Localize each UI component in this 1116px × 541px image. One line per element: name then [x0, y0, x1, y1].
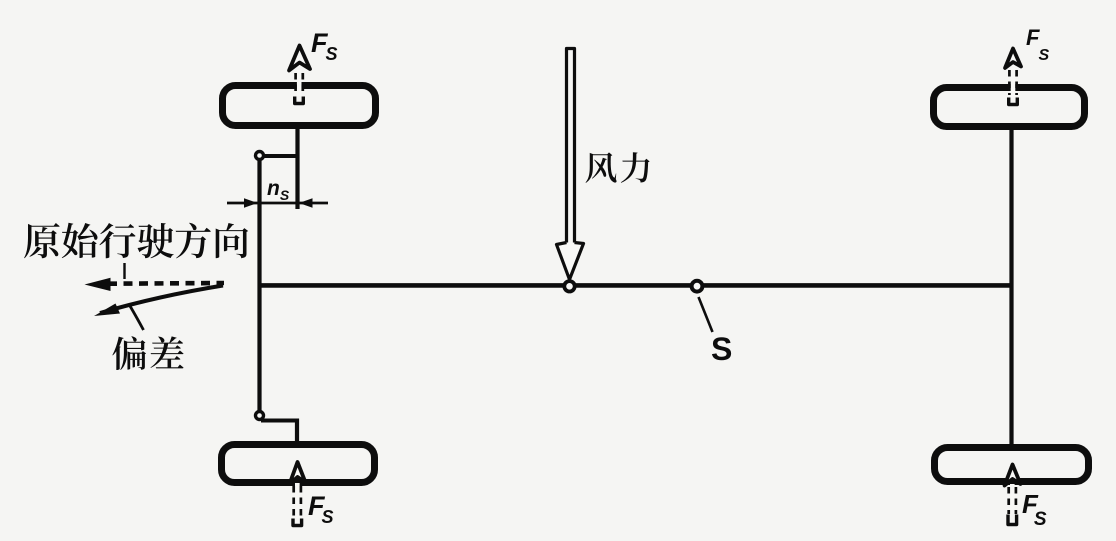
- node S center of gravity: [692, 281, 703, 292]
- wheel front-left tire: [223, 86, 376, 126]
- force arrow Fs rear-right shaft: [1009, 487, 1016, 514]
- wheel rear-left tire: [222, 445, 375, 483]
- svg-text:nS: nS: [267, 177, 290, 203]
- force arrow Fs front-left tail: [295, 97, 304, 104]
- force arrow Fs front-right shaft: [1009, 70, 1016, 95]
- force arrow Fs rear-left shaft: [294, 486, 301, 518]
- original direction arrow head: [85, 278, 111, 291]
- svg-text:S: S: [711, 331, 732, 367]
- svg-text:FS: FS: [1026, 25, 1049, 64]
- original direction dashed arrow shaft: [108, 281, 224, 286]
- node wind pressure point: [564, 281, 574, 291]
- svg-text:FS: FS: [311, 28, 338, 64]
- svg-text:FS: FS: [1022, 489, 1047, 530]
- wire front-left kingpin link: [260, 154, 298, 158]
- force arrow Fs front-left head: [297, 70, 302, 96]
- node rear-left pivot: [256, 412, 264, 420]
- force arrow Fs rear-right tail: [1008, 515, 1017, 525]
- dimension arrow right: [299, 198, 313, 207]
- deviation arrow head: [94, 304, 120, 317]
- wire front-left wheel stub: [295, 128, 299, 209]
- deviation arrow curve: [100, 286, 223, 314]
- wind force arrow shaft: [567, 49, 575, 244]
- node front-left pivot: [256, 152, 264, 160]
- wind force arrow head: [557, 243, 584, 280]
- force arrow Fs rear-left head: [295, 483, 300, 518]
- label 偏差 deviation: [112, 336, 183, 370]
- force arrow Fs rear-left tail: [293, 519, 302, 526]
- wheel rear-right tire: [935, 448, 1089, 482]
- wire rear-left wheel stub: [295, 419, 299, 447]
- force arrow Fs rear-right head: [1010, 484, 1015, 514]
- dimension line ns: [227, 202, 328, 205]
- label 原始行驶方向 original driving direction: [24, 223, 248, 259]
- wire left kingpin axis: [257, 157, 261, 414]
- wire right axle: [1009, 127, 1013, 447]
- wheel front-right tire: [934, 88, 1085, 127]
- leader line S: [699, 297, 713, 332]
- leader line 偏差: [130, 306, 144, 330]
- force arrow Fs front-right tail: [1009, 98, 1018, 105]
- force arrow Fs front-right head: [1011, 68, 1016, 97]
- label 风力 wind force: [586, 152, 650, 183]
- wire main body axis: [260, 283, 1014, 288]
- force arrow Fs front-left shaft: [296, 73, 303, 96]
- svg-text:FS: FS: [308, 491, 334, 527]
- wire rear-left kingpin link: [261, 419, 297, 423]
- tick below label: [123, 263, 125, 279]
- dimension arrow left: [244, 198, 258, 207]
